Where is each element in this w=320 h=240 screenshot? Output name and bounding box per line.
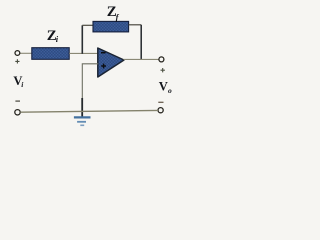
label: plus sign of Vo <box>161 68 165 72</box>
impedance Zi box <box>32 48 69 60</box>
wire: bottom return wire <box>20 110 158 112</box>
node: bottom-left terminal (open circle) <box>15 110 20 115</box>
wire: op-amp output to output terminal <box>124 58 159 60</box>
wire: non-inverting input to ground branch <box>82 64 98 108</box>
label: minus sign of Vi source <box>15 100 20 102</box>
wire: Zf box to feedback corner <box>129 24 142 26</box>
label: op-amp inverting input minus <box>101 52 106 54</box>
op-amp U1 triangle <box>98 48 124 77</box>
label: minus sign of Vo <box>158 101 163 103</box>
wire: feedback vertical down to output node <box>140 25 142 60</box>
svg-text:V: V <box>159 80 168 94</box>
ground symbol <box>74 117 91 125</box>
node: bottom-right terminal (open circle) <box>158 108 163 113</box>
wire: ground stem lower dark part <box>81 98 83 117</box>
node: input terminal (top-left open circle) <box>15 51 20 56</box>
wire: feedback horizontal to Zf box <box>82 24 93 26</box>
label: plus sign of Vi source <box>15 59 19 63</box>
impedance Zf box <box>93 21 129 32</box>
wire: input terminal to Zi box <box>20 52 33 54</box>
wire: feedback vertical from inverting node up <box>81 25 83 54</box>
wire: Zi box to op-amp inverting input <box>69 52 98 54</box>
label: op-amp non-inverting input plus <box>101 64 106 69</box>
node: output terminal (open circle) <box>159 57 164 62</box>
svg-text:o: o <box>168 86 172 95</box>
